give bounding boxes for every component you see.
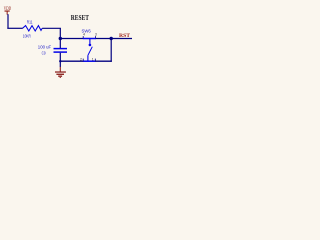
wire right vertical node B to rail	[110, 39, 112, 62]
wire ground rail (switch bottom to ground node)	[60, 60, 83, 62]
wire main node A to switch	[60, 38, 83, 40]
wire resistor to corner	[42, 27, 61, 29]
switch SW6	[80, 28, 97, 61]
svg-text:C9: C9	[42, 50, 46, 56]
svg-text:RST: RST	[119, 33, 130, 39]
junction node A	[59, 37, 62, 40]
switch bottom bar	[83, 60, 96, 62]
pin 2	[82, 59, 84, 62]
svg-text:R11: R11	[27, 20, 33, 26]
svg-text:4: 4	[83, 33, 85, 37]
svg-text:RESET: RESET	[71, 14, 89, 22]
switch top bar	[83, 38, 96, 40]
svg-text:1: 1	[92, 57, 94, 61]
svg-text:100 uF: 100 uF	[38, 44, 51, 50]
pin 3	[95, 36, 97, 39]
switch lever stub	[87, 55, 89, 61]
wire VDD vertical	[7, 14, 9, 28]
power port VDD	[4, 6, 11, 15]
wire capacitor to ground node	[59, 53, 61, 61]
background	[0, 0, 150, 84]
svg-text:3: 3	[95, 33, 97, 37]
pin 4	[82, 36, 84, 39]
junction node B	[110, 37, 113, 40]
switch contact dot	[89, 44, 92, 47]
pin 1	[94, 59, 96, 62]
wire corner vertical	[59, 28, 61, 38]
ground GND	[55, 67, 66, 78]
wire ground stem blue part	[59, 61, 61, 67]
switch lever	[88, 47, 92, 56]
wire switch to node B	[95, 38, 111, 40]
wire node B to RST	[111, 38, 132, 40]
switch stem	[89, 39, 91, 44]
wire switch bottom to right vertical	[95, 60, 112, 62]
svg-text:10KR: 10KR	[23, 33, 31, 39]
wire VDD to resistor	[7, 27, 22, 29]
junction ground node	[59, 60, 61, 62]
wire node A down to capacitor	[59, 39, 61, 49]
capacitor C9	[38, 44, 67, 56]
resistor R11	[23, 20, 43, 40]
